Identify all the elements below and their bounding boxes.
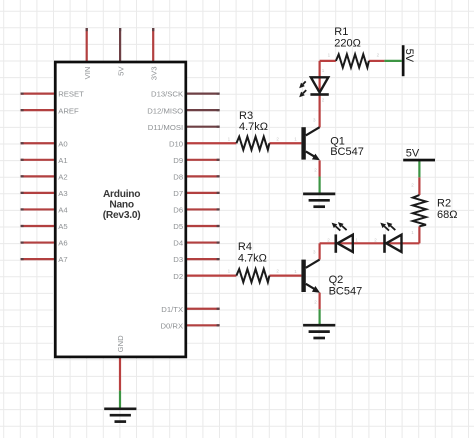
svg-text:220Ω: 220Ω xyxy=(334,37,361,49)
svg-text:D7: D7 xyxy=(173,189,183,198)
svg-text:BC547: BC547 xyxy=(329,285,363,297)
svg-text:RESET: RESET xyxy=(58,90,84,99)
svg-text:D8: D8 xyxy=(173,172,183,181)
svg-text:A1: A1 xyxy=(58,156,67,165)
svg-text:Nano: Nano xyxy=(109,200,133,211)
svg-text:R3: R3 xyxy=(239,110,253,122)
svg-text:R2: R2 xyxy=(437,198,451,210)
svg-text:A7: A7 xyxy=(58,255,67,264)
svg-text:R1: R1 xyxy=(334,26,348,38)
svg-text:D12/MISO: D12/MISO xyxy=(147,106,183,115)
svg-text:5V: 5V xyxy=(116,66,125,76)
svg-text:D1/TX: D1/TX xyxy=(161,305,183,314)
svg-text:R4: R4 xyxy=(238,241,252,253)
svg-text:A3: A3 xyxy=(58,189,67,198)
svg-text:A0: A0 xyxy=(58,139,67,148)
svg-text:A6: A6 xyxy=(58,239,67,248)
svg-text:D2: D2 xyxy=(173,272,183,281)
svg-text:D10: D10 xyxy=(169,139,183,148)
svg-text:D9: D9 xyxy=(173,156,183,165)
svg-text:AREF: AREF xyxy=(58,106,79,115)
svg-text:5V: 5V xyxy=(403,49,415,63)
svg-text:D3: D3 xyxy=(173,255,183,264)
svg-text:Arduino: Arduino xyxy=(103,189,140,200)
svg-text:D0/RX: D0/RX xyxy=(160,321,183,330)
svg-text:(Rev3.0): (Rev3.0) xyxy=(103,210,141,221)
svg-text:D5: D5 xyxy=(173,222,183,231)
svg-text:4.7kΩ: 4.7kΩ xyxy=(239,121,268,133)
svg-text:5V: 5V xyxy=(406,147,420,159)
svg-text:GND: GND xyxy=(116,335,125,353)
svg-text:4.7kΩ: 4.7kΩ xyxy=(238,252,267,264)
svg-text:D11/MOSI: D11/MOSI xyxy=(148,123,183,132)
svg-text:A5: A5 xyxy=(58,222,67,231)
svg-text:3V3: 3V3 xyxy=(149,67,158,81)
svg-text:A4: A4 xyxy=(58,206,68,215)
svg-text:D4: D4 xyxy=(173,239,184,248)
svg-text:A2: A2 xyxy=(58,172,67,181)
svg-text:VIN: VIN xyxy=(83,67,92,80)
svg-text:BC547: BC547 xyxy=(330,146,364,158)
svg-text:D6: D6 xyxy=(173,206,183,215)
svg-text:D13/SCK: D13/SCK xyxy=(151,90,184,99)
svg-text:68Ω: 68Ω xyxy=(437,209,457,221)
